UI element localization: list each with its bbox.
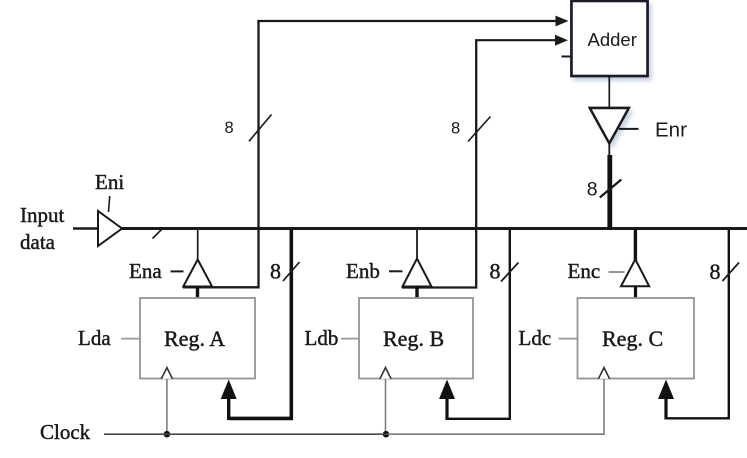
svg-text:8: 8	[270, 259, 281, 284]
wire Ena buffer to Reg A (thick stub)	[196, 287, 199, 300]
Enr enable stub	[619, 128, 639, 130]
Lda wire dash	[121, 338, 140, 340]
Enc enable dash	[609, 271, 625, 273]
wire bus to Reg B load input	[447, 230, 510, 419]
wire Enb buffer to Reg B (thick stub)	[415, 287, 418, 300]
clock wedge Reg A	[161, 368, 172, 379]
tri-state buffer Ena	[183, 260, 212, 287]
clock stub wire Reg A	[166, 379, 168, 434]
clock stub wire Reg B	[385, 379, 387, 434]
bus width slash 8 on Enr wire	[600, 180, 622, 198]
wire Reg B output to Adder input (vertical riser)	[402, 40, 476, 287]
register Reg. C	[578, 298, 695, 379]
register Reg. B	[359, 298, 473, 379]
wire Adder input 2 horizontal	[475, 39, 556, 41]
tri-state buffer Enc	[621, 259, 649, 286]
svg-text:Eni: Eni	[95, 170, 124, 194]
arrowhead into Reg B load	[439, 380, 455, 400]
arrow shaft into Reg B	[445, 397, 448, 420]
svg-text:Ldc: Ldc	[519, 326, 552, 350]
svg-text:Adder: Adder	[588, 29, 637, 50]
arrow shaft into Reg C	[664, 397, 667, 420]
arrowhead into Adder input 1	[556, 16, 569, 27]
wire Adder input 1 horizontal	[257, 20, 556, 22]
Eni enable wire	[109, 196, 110, 212]
wire Adder output to Enr buffer	[608, 76, 610, 108]
Adder U1	[572, 1, 648, 76]
bus width slash 8 on Reg A riser	[249, 115, 272, 142]
svg-text:8: 8	[490, 259, 501, 284]
bus (common 8-bit bus line)	[121, 227, 747, 230]
bus width slash 8 on Reg A load wire	[283, 262, 300, 281]
wire Reg A output to Adder input (vertical riser)	[183, 21, 259, 287]
junction dot clock / Reg A	[164, 431, 171, 438]
svg-text:8: 8	[710, 259, 721, 284]
svg-text:Clock: Clock	[40, 420, 91, 444]
wire bus to Reg A load input (thick)	[229, 230, 291, 418]
wire bus to Ena buffer	[197, 229, 199, 261]
svg-text:Reg. B: Reg. B	[383, 326, 444, 351]
wire Enr output to bus (8-bit, thick)	[608, 143, 610, 158]
arrow shaft into Reg A	[227, 397, 230, 420]
svg-text:Reg. A: Reg. A	[164, 326, 225, 351]
bus width slash after Eni	[153, 228, 164, 239]
svg-text:Ena: Ena	[129, 259, 162, 283]
arrowhead into Reg A load	[221, 380, 237, 400]
bus width slash 8 on Reg B riser	[468, 117, 491, 142]
svg-text:Enr: Enr	[655, 119, 687, 142]
svg-text:8: 8	[587, 179, 598, 201]
svg-text:8: 8	[225, 119, 234, 137]
svg-text:data: data	[20, 230, 56, 254]
Ena enable dash	[171, 270, 184, 272]
clock wire (left segment)	[104, 433, 388, 435]
clock wedge Reg B	[380, 368, 391, 379]
wire input data to buffer	[73, 227, 98, 230]
arrowhead into Adder input 2	[555, 35, 568, 46]
tri-state buffer Enb	[403, 259, 432, 287]
svg-text:Reg. C: Reg. C	[602, 326, 663, 351]
tri-state buffer Eni	[98, 211, 122, 246]
bus width slash 8 on Reg B load wire	[501, 263, 519, 282]
Ldb wire dash	[341, 338, 359, 340]
arrowhead into Reg C load	[658, 380, 674, 400]
wire Enc buffer to Reg C (thick stub)	[634, 286, 637, 299]
junction dot clock / Reg B	[383, 431, 390, 438]
wire bus to Reg C load input	[666, 230, 729, 418]
register Reg. A	[140, 298, 255, 379]
Adder carry stub	[562, 56, 572, 58]
tri-state buffer Enr (points down)	[590, 108, 629, 143]
svg-text:Ldb: Ldb	[305, 326, 339, 350]
bus width slash 8 on Reg C load wire	[723, 263, 740, 282]
Enb enable dash	[389, 270, 403, 272]
svg-text:8: 8	[451, 120, 460, 138]
wire bus to Enc buffer (thick)	[634, 229, 637, 262]
clock wire (right segment to Reg C)	[388, 433, 605, 435]
svg-text:Enc: Enc	[568, 259, 601, 283]
wire bus to Enb buffer	[416, 229, 418, 261]
clock wedge Reg C	[598, 368, 609, 379]
svg-text:Lda: Lda	[78, 326, 111, 350]
svg-text:Input: Input	[20, 203, 64, 227]
Ldc wire dash	[559, 338, 578, 340]
svg-text:Enb: Enb	[346, 259, 380, 283]
clock stub wire Reg C	[603, 379, 605, 434]
